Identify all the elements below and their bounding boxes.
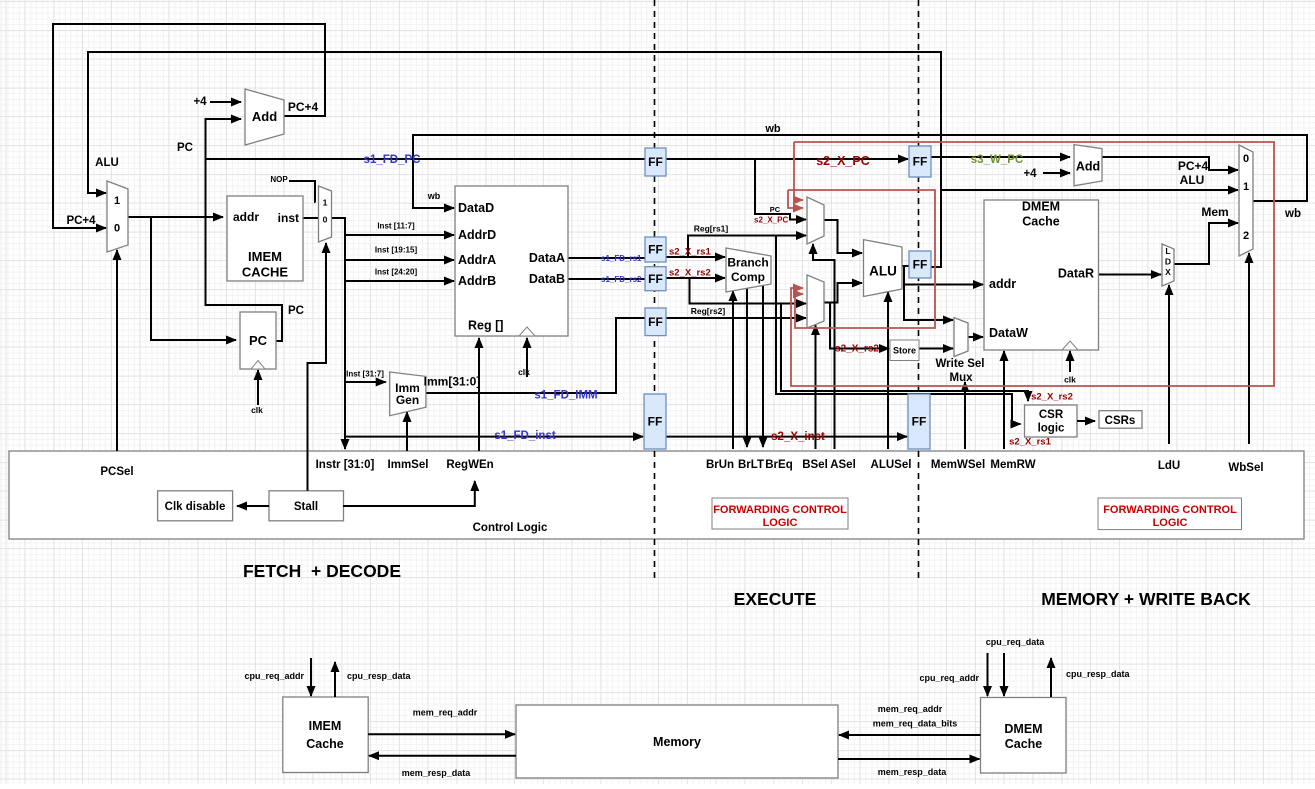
svg-text:IMEM: IMEM	[248, 249, 282, 264]
svg-text:FF: FF	[648, 243, 663, 257]
svg-text:mem_req_addr: mem_req_addr	[878, 704, 943, 714]
svg-text:Memory: Memory	[653, 735, 701, 749]
svg-text:BrLT: BrLT	[738, 459, 764, 471]
svg-text:clk: clk	[518, 367, 530, 377]
wire s2_X_inst FF to FF	[666, 436, 907, 438]
svg-text:PC+4: PC+4	[66, 215, 96, 227]
mux LDX (load extend)	[1162, 244, 1174, 286]
wire Write Sel Mux out to DataW	[968, 336, 983, 338]
wire B mux out to ALU	[824, 283, 862, 303]
wire forwarding path into A mux input 2	[788, 190, 803, 208]
svg-text:DataW: DataW	[989, 326, 1028, 340]
wire Inst [31:7] to ImmGen	[345, 381, 386, 383]
svg-text:AddrB: AddrB	[458, 274, 496, 288]
wire ALU out tap to Write Sel mux	[904, 266, 953, 320]
svg-text:ALU: ALU	[869, 264, 897, 279]
svg-text:0: 0	[323, 215, 328, 225]
svg-text:Instr [31:0]: Instr [31:0]	[316, 459, 375, 471]
svg-text:Cache: Cache	[306, 737, 344, 751]
svg-text:PC: PC	[288, 305, 304, 317]
Branch Comp	[726, 248, 771, 292]
wire wb writeback from WB mux to RegFile DataD	[413, 135, 1307, 208]
wire MemRW up to DMEM	[1003, 351, 1005, 449]
svg-text:Mux: Mux	[950, 372, 974, 384]
FF s2_X_inst	[908, 394, 930, 449]
wire PC mux out to IMEM addr	[128, 216, 223, 218]
IMEM CACHE box	[227, 196, 303, 281]
DMEM Cache box (bottom)	[981, 698, 1067, 774]
wire mem_req DMEM to Memory	[839, 734, 981, 736]
wire Inst [24:20] to AddrB	[345, 280, 454, 282]
mux WbSel (writeback mux)	[1239, 145, 1253, 256]
svg-text:addr: addr	[233, 210, 259, 224]
svg-text:cpu_resp_data: cpu_resp_data	[347, 671, 412, 681]
svg-text:MemWSel: MemWSel	[931, 459, 985, 471]
stage separator dashed line 1	[654, 0, 656, 578]
wire BrLT down to control	[746, 288, 748, 447]
Store box	[890, 340, 919, 361]
wire forwarding loop (inner) into B mux input 2	[788, 190, 935, 328]
svg-text:IMEM: IMEM	[309, 719, 342, 733]
FF s1_FD_inst	[644, 394, 666, 449]
ALU	[864, 240, 903, 297]
register PC	[240, 312, 276, 369]
wire s2_X_PC into A mux	[755, 159, 806, 220]
svg-text:CSR: CSR	[1039, 409, 1064, 421]
Imm Gen	[390, 372, 426, 416]
wire CSR logic to CSRs	[1077, 420, 1095, 422]
svg-text:Mem: Mem	[1201, 205, 1228, 219]
wire ImmSel up to ImmGen	[406, 412, 408, 451]
svg-text:DataB: DataB	[529, 272, 565, 286]
wire PC clk stub	[257, 370, 259, 405]
svg-text:Reg[rs2]: Reg[rs2]	[691, 306, 726, 316]
mux PCSel (PC select mux)	[107, 181, 128, 252]
wire s2_X_rs1 to Branch Comp	[666, 256, 725, 258]
wire RegFile clk stub	[526, 338, 528, 377]
svg-text:Gen: Gen	[396, 393, 419, 407]
svg-text:ALU: ALU	[1180, 173, 1205, 187]
wire MemWSel up to Write Sel Mux	[964, 382, 966, 449]
svg-text:Imm[31:0]: Imm[31:0]	[424, 375, 481, 389]
wire s1_FD_PC tap to FF	[206, 158, 646, 160]
svg-text:wb: wb	[427, 191, 441, 201]
mux NOP (bubble insert mux)	[319, 186, 332, 242]
svg-text:s2_X_rs2: s2_X_rs2	[669, 268, 711, 279]
wire DataB to FF	[568, 278, 645, 280]
wire DMEM clk stub	[1069, 351, 1071, 372]
svg-text:s2_X_rs1: s2_X_rs1	[669, 247, 711, 258]
svg-text:cpu_req_addr: cpu_req_addr	[244, 671, 304, 681]
wire s1_FD_inst to FF	[345, 436, 643, 438]
wire Stall to NOP-mux select	[308, 243, 327, 491]
svg-text:s1_FD_inst: s1_FD_inst	[494, 430, 556, 442]
svg-text:s2_X_rs2: s2_X_rs2	[835, 344, 879, 355]
svg-text:s1_FD_IMM: s1_FD_IMM	[534, 390, 597, 402]
wire inst from IMEM to NOP mux	[303, 217, 319, 219]
wire mem_req_addr IMEM to Memory	[368, 733, 515, 735]
wire s2_X_rs2 tap to Store	[830, 304, 889, 349]
wire Mem (LDX out) to WB mux input 2	[1174, 223, 1238, 264]
svg-text:Clk disable: Clk disable	[165, 501, 226, 513]
FF ALU result	[909, 251, 931, 278]
wire RegWEn up to RegFile	[478, 338, 480, 451]
DMEM clock triangle	[1062, 341, 1078, 350]
svg-text:addr: addr	[989, 277, 1016, 291]
svg-text:DataD: DataD	[458, 201, 494, 215]
wire PC+4 feedback to PC mux input 0	[53, 24, 325, 228]
svg-text:ALUSel: ALUSel	[871, 459, 912, 471]
svg-text:CACHE: CACHE	[242, 265, 289, 280]
svg-text:Inst [11:7]: Inst [11:7]	[377, 222, 415, 231]
wire Inst [19:15] to AddrA	[345, 259, 454, 261]
FF s1_FD_rs1	[645, 237, 666, 262]
wire Stall to Clk disable	[237, 505, 269, 507]
PC clock triangle	[251, 361, 265, 370]
svg-text:BrEq: BrEq	[765, 459, 792, 471]
svg-text:Inst [31:7]: Inst [31:7]	[346, 370, 384, 379]
svg-text:Control Logic: Control Logic	[473, 522, 548, 534]
wire s2_X_rs2 tap to CSR logic top	[781, 304, 1028, 402]
svg-text:PC: PC	[249, 333, 268, 348]
wire Add out to WB mux input 0 (PC+4)	[1102, 157, 1238, 170]
mux B (BSel)	[807, 275, 824, 328]
svg-text:FORWARDING CONTROL: FORWARDING CONTROL	[713, 504, 847, 516]
wire ALU out tap to DMEM addr	[904, 284, 983, 286]
svg-text:s1_FD_PC: s1_FD_PC	[364, 154, 421, 166]
wire +4 into Add (fetch)	[210, 101, 241, 103]
svg-text:Reg[rs1]: Reg[rs1]	[694, 224, 729, 234]
svg-text:AddrA: AddrA	[458, 253, 496, 267]
svg-text:PC+4: PC+4	[288, 100, 319, 114]
svg-text:D: D	[1165, 257, 1171, 267]
svg-text:DataR: DataR	[1058, 267, 1094, 281]
register file clock triangle	[519, 327, 535, 336]
svg-text:0: 0	[1243, 153, 1249, 165]
wire ASel select	[813, 244, 835, 449]
svg-text:logic: logic	[1038, 423, 1065, 435]
wire ALU result feedback to PC mux input 1	[88, 52, 941, 267]
wire ALUSel select	[887, 292, 889, 449]
svg-text:clk: clk	[251, 405, 263, 415]
svg-text:s3_W_PC: s3_W_PC	[971, 154, 1023, 166]
svg-text:FF: FF	[648, 155, 663, 169]
DMEM Cache box	[984, 200, 1099, 350]
wire cpu_req_data down into DMEM cache (1)	[987, 653, 989, 696]
wire Reg[rs2] down to B mux	[690, 278, 807, 304]
wire ALU out to FF	[902, 265, 909, 267]
wire forwarding loop (outer) into B mux input 1	[791, 142, 1274, 386]
wire s1_FD_PC / s2_X_PC pipeline line	[666, 158, 908, 160]
wire Store out to Write Sel Mux	[919, 348, 953, 350]
svg-text:PC+4: PC+4	[1178, 159, 1209, 173]
wire Stall to RegWEn	[343, 481, 475, 506]
svg-text:cpu_req_data: cpu_req_data	[986, 637, 1046, 647]
adder Add (PC+4 fetch)	[245, 89, 284, 145]
svg-text:DMEM: DMEM	[1004, 722, 1042, 736]
svg-text:ALU: ALU	[95, 157, 119, 169]
svg-text:FF: FF	[912, 415, 927, 429]
svg-text:ASel: ASel	[830, 459, 856, 471]
register file	[455, 186, 568, 336]
svg-text:WbSel: WbSel	[1228, 462, 1263, 474]
svg-text:wb: wb	[1284, 208, 1301, 220]
wire PC net: PC reg out to Add, with taps	[206, 119, 283, 341]
Memory box	[516, 705, 838, 778]
svg-text:mem_resp_data: mem_resp_data	[402, 768, 472, 778]
svg-text:FF: FF	[648, 315, 663, 329]
svg-text:Add: Add	[252, 109, 277, 124]
wire +4 into Add (writeback)	[1043, 172, 1070, 174]
svg-text:+4: +4	[193, 96, 207, 108]
svg-text:s1_FD_rs2: s1_FD_rs2	[601, 275, 642, 284]
svg-text:0: 0	[114, 223, 120, 235]
svg-text:LdU: LdU	[1158, 460, 1180, 472]
svg-text:MEMORY + WRITE BACK: MEMORY + WRITE BACK	[1041, 589, 1251, 609]
svg-text:X: X	[1165, 267, 1171, 277]
wire DataA to FF	[568, 257, 645, 259]
IMEM Cache box (bottom)	[283, 697, 368, 773]
svg-text:BSel: BSel	[802, 459, 828, 471]
svg-text:Write Sel: Write Sel	[936, 358, 985, 370]
wire ALU result to WB mux input 1	[941, 189, 1238, 191]
Stall box	[269, 491, 344, 521]
svg-text:NOP: NOP	[270, 175, 288, 184]
wire forwarding path into A mux input 1	[794, 142, 803, 200]
FF s1_FD_PC	[645, 148, 666, 176]
svg-text:s2_X_PC: s2_X_PC	[816, 154, 870, 168]
svg-text:LOGIC: LOGIC	[1153, 517, 1188, 529]
wire DataR to LDX mux	[1099, 274, 1162, 276]
svg-text:PCSel: PCSel	[100, 466, 133, 478]
mux Write Sel	[954, 318, 968, 357]
svg-text:1: 1	[323, 198, 328, 208]
svg-text:mem_req_addr: mem_req_addr	[413, 708, 478, 718]
svg-text:Store: Store	[893, 346, 916, 356]
svg-text:wb: wb	[764, 123, 781, 135]
svg-text:FF: FF	[913, 258, 928, 272]
forwarding control logic box 1	[712, 498, 848, 529]
svg-text:PC: PC	[770, 205, 781, 214]
svg-text:CSRs: CSRs	[1105, 415, 1136, 427]
svg-text:Cache: Cache	[1005, 737, 1043, 751]
svg-text:PC: PC	[177, 142, 193, 154]
svg-text:1: 1	[1243, 181, 1249, 193]
svg-text:RegWEn: RegWEn	[446, 459, 493, 471]
wire PC mux out branch to PC reg	[151, 217, 236, 340]
svg-text:FETCH + DECODE: FETCH + DECODE	[243, 561, 401, 581]
FF s2_X_PC	[909, 146, 931, 177]
svg-text:AddrD: AddrD	[458, 228, 496, 242]
svg-text:Inst [19:15]: Inst [19:15]	[375, 246, 418, 255]
wire cpu_resp_data up from DMEM cache	[1050, 658, 1052, 697]
svg-text:FF: FF	[648, 272, 663, 286]
stage separator dashed line 2	[918, 0, 920, 578]
wire Inst [11:7] to AddrD	[345, 234, 454, 236]
wire instruction bus down to control logic	[332, 218, 346, 449]
svg-text:s2_X_PC: s2_X_PC	[754, 216, 788, 225]
svg-text:Cache: Cache	[1022, 215, 1060, 229]
wire A mux out to ALU	[824, 220, 862, 253]
svg-text:DMEM: DMEM	[1022, 200, 1060, 214]
svg-text:Stall: Stall	[294, 501, 318, 513]
svg-text:Add: Add	[1076, 160, 1100, 174]
wire mem_resp_data Memory to IMEM	[369, 755, 516, 757]
svg-text:+4: +4	[1023, 168, 1037, 180]
wire cpu_req_addr down into IMEM cache	[310, 658, 312, 696]
wire mem_resp Memory to DMEM	[838, 758, 980, 760]
mux A (ASel)	[807, 197, 824, 244]
FF s1_FD_IMM	[645, 308, 666, 336]
svg-text:s1_FD_rs1: s1_FD_rs1	[601, 254, 642, 263]
svg-text:Branch: Branch	[727, 256, 768, 270]
svg-text:LOGIC: LOGIC	[763, 517, 798, 529]
svg-text:FF: FF	[913, 155, 928, 169]
svg-text:clk: clk	[1064, 375, 1076, 385]
svg-text:mem_resp_data: mem_resp_data	[878, 767, 948, 777]
svg-text:Reg []: Reg []	[468, 319, 503, 333]
svg-text:inst: inst	[278, 211, 299, 225]
svg-text:Comp: Comp	[731, 270, 765, 284]
wire IMM FF out to B mux	[666, 317, 807, 319]
wire BrEq down to control	[762, 286, 764, 447]
CSR logic box	[1025, 405, 1078, 437]
wire cpu_req_data down into DMEM cache (2)	[1003, 653, 1005, 696]
FF s1_FD_rs2	[645, 267, 666, 291]
svg-text:cpu_resp_data: cpu_resp_data	[1066, 669, 1131, 679]
svg-text:s2_X_rs1: s2_X_rs1	[1009, 437, 1051, 448]
wire WbSel select	[1248, 253, 1250, 444]
adder Add (PC+4 writeback)	[1074, 145, 1102, 186]
wire s2_X_rs2 to Branch Comp	[666, 277, 725, 279]
svg-text:Inst [24:20]: Inst [24:20]	[375, 268, 418, 277]
svg-text:1: 1	[114, 195, 120, 207]
wire cpu_resp_data up from IMEM cache	[334, 662, 336, 697]
wire BrUn up into Branch Comp	[732, 291, 734, 449]
svg-text:MemRW: MemRW	[990, 459, 1035, 471]
svg-text:EXECUTE: EXECUTE	[734, 589, 817, 609]
wire s2_X_rs1 tap to CSR logic left	[776, 236, 1021, 425]
CSRs box	[1099, 411, 1142, 429]
svg-text:s2_X_rs2: s2_X_rs2	[1031, 392, 1073, 403]
control logic box	[9, 451, 1304, 539]
Clk disable box	[158, 491, 233, 521]
svg-text:FF: FF	[648, 415, 663, 429]
svg-text:BrUn: BrUn	[706, 459, 734, 471]
svg-text:L: L	[1165, 246, 1170, 256]
wire s3_W_PC to Add (writeback)	[931, 156, 1070, 158]
wire Imm[31:0] / s1_FD_IMM to FF	[426, 318, 645, 393]
svg-text:ImmSel: ImmSel	[388, 459, 429, 471]
svg-text:cpu_req_addr: cpu_req_addr	[919, 673, 979, 683]
wire PCSel select	[116, 250, 118, 451]
wire NOP into NOP mux	[289, 181, 316, 202]
wire Reg[rs1] up to A mux	[688, 236, 806, 258]
svg-text:mem_req_data_bits: mem_req_data_bits	[873, 719, 958, 729]
svg-text:2: 2	[1243, 230, 1249, 242]
wire BSel select	[815, 325, 817, 449]
wire LdU select	[1168, 285, 1170, 444]
svg-text:DataA: DataA	[529, 251, 565, 265]
svg-text:FORWARDING CONTROL: FORWARDING CONTROL	[1103, 504, 1237, 516]
forwarding control logic box 2	[1098, 498, 1242, 530]
svg-text:s2_X_inst: s2_X_inst	[771, 431, 825, 443]
